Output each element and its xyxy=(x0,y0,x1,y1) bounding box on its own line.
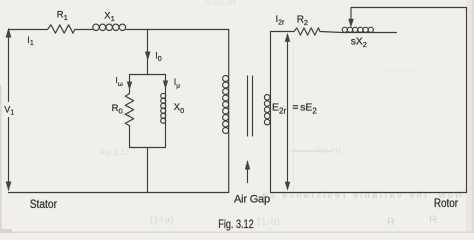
svg-text:worri at: worri at xyxy=(384,65,415,75)
svg-text:Rotor: Rotor xyxy=(434,197,459,210)
svg-text:Air Gap: Air Gap xyxy=(234,193,270,205)
svg-text:(1+a): (1+a) xyxy=(150,215,174,226)
svg-text:Stator: Stator xyxy=(30,198,58,211)
svg-text:is om art: is om art xyxy=(205,0,236,7)
svg-text:no ed: no ed xyxy=(318,145,341,155)
svg-text:E2r=sE2: E2r=sE2 xyxy=(272,102,317,116)
svg-text:Fig.3.13: Fig.3.13 xyxy=(100,148,129,157)
svg-text:R: R xyxy=(429,214,437,226)
svg-text:(1-8): (1-8) xyxy=(257,216,280,228)
svg-text:Now, the variable resistance c: Now, the variable resistance ca xyxy=(261,190,462,201)
svg-text:Fig. 3.12: Fig. 3.12 xyxy=(218,219,254,231)
svg-text:R: R xyxy=(387,216,395,228)
